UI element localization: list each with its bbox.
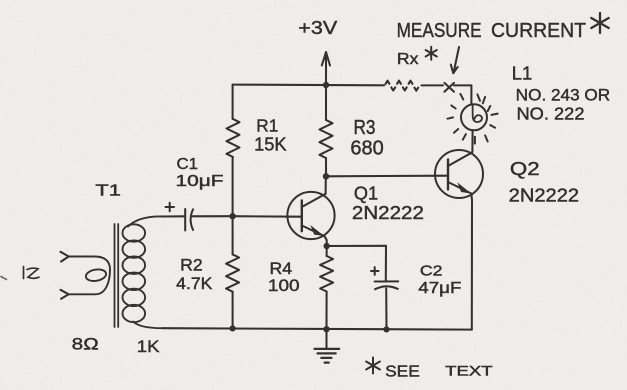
svg-text:Q1: Q1: [354, 184, 378, 204]
wire Q1 emitter down: [325, 236, 327, 246]
node R2-rail junction: [230, 325, 236, 331]
svg-text:100: 100: [268, 277, 300, 295]
wire R1 to C1 node: [232, 157, 234, 216]
svg-text:R4: R4: [270, 260, 293, 278]
svg-text:680: 680: [350, 136, 383, 159]
resistor R1: [227, 119, 240, 157]
resistor R2: [226, 254, 239, 291]
transformer T1 primary loop: [69, 257, 110, 295]
svg-text:MEASURE: MEASURE: [397, 19, 482, 42]
svg-text:SEE: SEE: [385, 363, 420, 380]
capacitor C2 plus sign: [371, 270, 379, 272]
wire Rx to measure point: [422, 84, 444, 86]
svg-text:NO. 243 OR: NO. 243 OR: [516, 86, 611, 105]
wire R3 to node A: [325, 158, 327, 176]
wire +3V node down to R3: [325, 85, 327, 120]
wire C1 to node B: [192, 215, 233, 217]
asterisk after CURRENT: [599, 13, 601, 33]
lamp L1 filament: [473, 105, 482, 122]
svg-text:8Ω: 8Ω: [72, 336, 99, 354]
wire node C to C2: [327, 245, 386, 247]
svg-text:R2: R2: [180, 257, 203, 275]
transistor Q1 envelope: [287, 192, 334, 239]
asterisk before SEE TEXT: [372, 358, 374, 374]
svg-text:4.7K: 4.7K: [176, 275, 212, 293]
transistor Q2 collector stroke: [448, 152, 472, 166]
svg-text:NO. 222: NO. 222: [517, 104, 585, 124]
svg-text:47μF: 47μF: [418, 280, 461, 297]
arrow to measure point: [454, 47, 460, 73]
node A (Q1 collector / Q2 base): [323, 173, 329, 179]
svg-text:Q2: Q2: [510, 159, 540, 179]
wire secondary top lead: [128, 216, 163, 226]
transistor Q1 emitter stroke: [302, 226, 325, 237]
measurement point X mark: [444, 83, 454, 92]
label IN (rotated): [23, 267, 25, 279]
svg-text:1K: 1K: [137, 337, 160, 356]
node C (Q1 emitter junction): [324, 243, 330, 249]
resistor Rx (squiggle): [386, 81, 419, 91]
wire measure point to corner: [454, 84, 471, 86]
asterisk after Rx: [430, 47, 432, 60]
svg-text:15K: 15K: [254, 135, 287, 155]
transistor Q2 envelope: [435, 150, 483, 198]
wire C2 to bottom rail: [385, 289, 387, 330]
ground symbol: [325, 329, 327, 347]
wire Q1 emitter node to R4: [326, 246, 328, 256]
svg-text:C1: C1: [177, 156, 199, 173]
svg-text:Rx: Rx: [397, 51, 419, 68]
svg-text:C2: C2: [420, 264, 443, 280]
resistor R4: [320, 256, 333, 292]
wire node A down to Q1 collector: [325, 176, 327, 194]
wire R4 to bottom rail: [325, 292, 327, 330]
capacitor C1: [184, 209, 186, 231]
wire node A to Q2 base: [326, 175, 447, 178]
wire bottom rail: [163, 328, 472, 329]
wire lamp to Q2 collector: [471, 130, 473, 152]
svg-text:T1: T1: [95, 183, 121, 200]
transistor Q1 collector stroke: [302, 194, 326, 207]
node B (C1/R1/R2/base junction): [229, 213, 235, 219]
svg-text:2N2222: 2N2222: [352, 202, 424, 223]
transformer T1 secondary winding: [123, 224, 146, 241]
capacitor C2: [375, 280, 399, 282]
lamp L1 envelope: [461, 104, 487, 130]
wire Q2 emitter down to rail: [470, 194, 473, 330]
lamp rays: [477, 94, 480, 100]
transformer T1 core: [114, 224, 116, 327]
input terminal lower Y: [61, 290, 69, 299]
transistor Q2 base bar: [447, 160, 449, 190]
input terminal upper Y: [61, 252, 69, 262]
svg-text:+3V: +3V: [298, 17, 338, 38]
node +3V supply junction: [323, 82, 329, 88]
svg-text:10μF: 10μF: [176, 173, 224, 190]
svg-text:R1: R1: [256, 115, 278, 135]
stray mark left edge: [1, 277, 7, 280]
wire R2 to bottom rail: [232, 292, 234, 329]
node R4-ground-rail junction: [323, 326, 329, 332]
svg-text:L1: L1: [512, 62, 533, 83]
wire secondary bottom lead: [133, 322, 163, 329]
svg-text:TEXT: TEXT: [445, 363, 493, 379]
svg-text:2N2222: 2N2222: [509, 184, 579, 205]
svg-text:CURRENT: CURRENT: [491, 19, 586, 42]
node C2-rail junction: [383, 326, 389, 332]
capacitor C1 plus sign: [166, 206, 175, 208]
resistor R3: [320, 120, 333, 158]
wire node B to Q1 base: [233, 215, 302, 218]
wire node B down to R2: [232, 216, 234, 254]
transistor Q2 emitter stroke: [448, 182, 471, 194]
power +3V arrow: [322, 52, 330, 66]
wire rail corner down to R1: [232, 85, 234, 119]
wire secondary to C1: [163, 215, 185, 217]
wire top rail left segment: [233, 84, 385, 87]
transistor Q1 base bar: [301, 201, 303, 232]
